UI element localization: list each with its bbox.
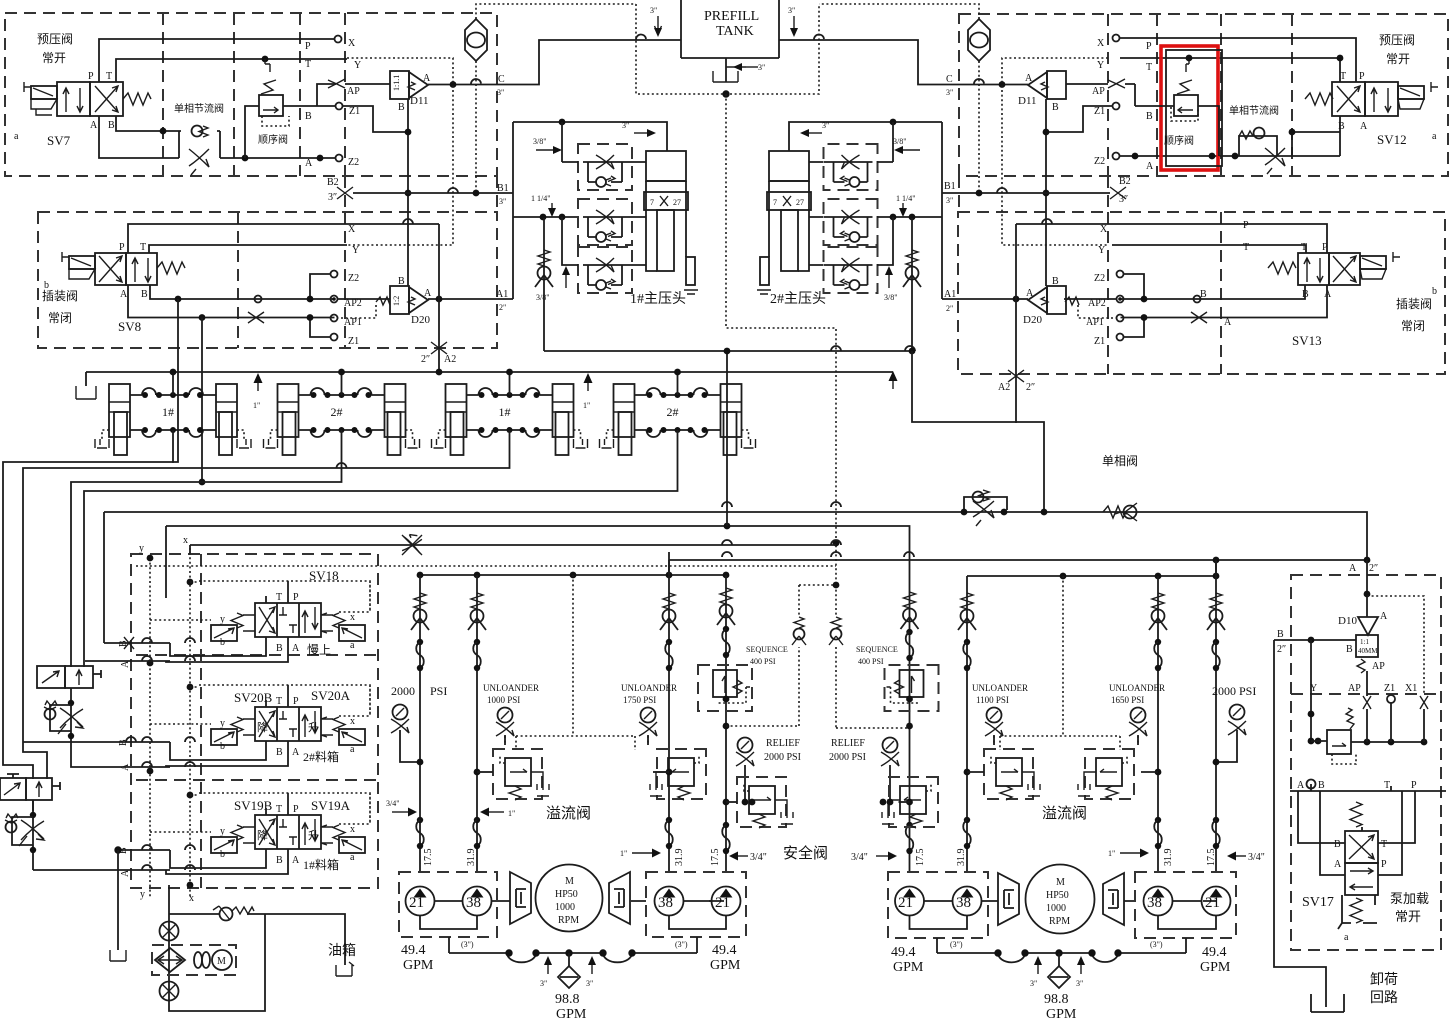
- SV8 P to X line: [128, 224, 439, 253]
- svg-text:x: x: [350, 824, 355, 835]
- svg-text:SV7: SV7: [47, 133, 71, 148]
- svg-text:P: P: [119, 242, 125, 253]
- dotted bypass around tank: [636, 4, 819, 94]
- dotted pilots sequence: [726, 585, 910, 728]
- SV8 B/A wires: [128, 285, 335, 318]
- svg-text:GPM: GPM: [893, 960, 924, 975]
- svg-text:SV13: SV13: [1292, 333, 1322, 348]
- svg-text:x: x: [350, 716, 355, 727]
- svg-text:1": 1": [1108, 849, 1115, 858]
- svg-text:B: B: [305, 111, 312, 122]
- wire X-line down to A2: [438, 224, 440, 369]
- svg-text:x: x: [350, 612, 355, 623]
- svg-text:1 1/4": 1 1/4": [896, 194, 916, 203]
- manifold left: [449, 937, 697, 953]
- svg-text:A: A: [1334, 859, 1342, 870]
- wire AP2 to D20: [338, 298, 390, 300]
- motor box: [152, 945, 236, 975]
- svg-text:PREFILL: PREFILL: [704, 9, 759, 24]
- svg-text:3/8": 3/8": [536, 293, 550, 302]
- svg-text:RPM: RPM: [558, 915, 579, 926]
- dotted bus y590: [136, 565, 836, 567]
- svg-text:y: y: [139, 543, 144, 554]
- svg-text:y: y: [220, 826, 225, 837]
- svg-text:1": 1": [620, 849, 627, 858]
- svg-text:B2: B2: [327, 177, 339, 188]
- tank 油箱: [336, 962, 354, 976]
- hand valve 2: [0, 778, 60, 800]
- svg-text:49.4: 49.4: [891, 945, 916, 960]
- svg-text:(3"): (3"): [950, 940, 963, 949]
- svg-text:21: 21: [409, 895, 424, 911]
- svg-text:a: a: [350, 744, 355, 755]
- svg-text:1000: 1000: [555, 902, 575, 913]
- line C y545: [190, 545, 836, 554]
- internal dashed dividers: [163, 13, 345, 176]
- svg-text:AP: AP: [1348, 683, 1361, 694]
- line y351 between check bottoms: [544, 346, 915, 351]
- svg-text:B: B: [1200, 289, 1207, 300]
- svg-text:3″: 3″: [1119, 194, 1128, 205]
- svg-text:AP: AP: [1372, 661, 1385, 672]
- svg-text:M: M: [217, 956, 226, 967]
- svg-text:2#主压头: 2#主压头: [770, 291, 826, 307]
- svg-text:A: A: [423, 73, 431, 84]
- wires SV12 P/T: [1120, 38, 1356, 82]
- svg-text:常开: 常开: [1395, 909, 1421, 924]
- svg-text:3": 3": [788, 6, 795, 15]
- svg-text:98.8: 98.8: [555, 992, 580, 1007]
- svg-text:GPM: GPM: [403, 958, 434, 973]
- svg-text:TANK: TANK: [716, 24, 754, 39]
- svg-text:38: 38: [1147, 895, 1162, 911]
- svg-text:A: A: [1146, 161, 1154, 172]
- main valve SV17: [1350, 802, 1362, 827]
- svg-text:a: a: [1432, 131, 1437, 142]
- svg-text:(3"): (3"): [461, 940, 474, 949]
- check valve under press1: [543, 218, 545, 351]
- manifold right: [937, 938, 1186, 953]
- svg-text:T: T: [1384, 780, 1390, 791]
- svg-text:3": 3": [822, 121, 829, 130]
- hand valve 1: [37, 666, 101, 688]
- valve SV7 4/2: [57, 82, 90, 116]
- wire P to X: [99, 39, 335, 82]
- svg-text:D20: D20: [1023, 314, 1042, 326]
- svg-text:1": 1": [253, 401, 260, 410]
- svg-text:3": 3": [586, 979, 593, 988]
- svg-text:3/4": 3/4": [386, 799, 400, 808]
- wire D20 A to A1: [428, 298, 513, 300]
- svg-text:1:1: 1:1: [1360, 638, 1369, 646]
- svg-text:A: A: [292, 643, 300, 654]
- svg-text:3/4": 3/4": [1248, 852, 1265, 863]
- wire T to Y: [116, 59, 347, 82]
- svg-text:X: X: [1100, 224, 1108, 235]
- svg-text:卸荷: 卸荷: [1370, 972, 1398, 988]
- svg-text:SEQUENCE: SEQUENCE: [746, 645, 788, 654]
- svg-text:17.5: 17.5: [915, 849, 926, 867]
- svg-text:RELIEF: RELIEF: [831, 738, 865, 749]
- svg-text:A: A: [424, 288, 432, 299]
- chain x909: [909, 589, 911, 872]
- svg-text:B: B: [1052, 102, 1059, 113]
- svg-text:3": 3": [758, 63, 765, 72]
- svg-text:a: a: [350, 852, 355, 863]
- chain x1158: [1157, 576, 1159, 872]
- svg-text:1:2: 1:2: [392, 296, 401, 306]
- wire D11 B down to D20 B: [407, 99, 409, 286]
- sequence valve 顺序阀 left: [259, 95, 283, 116]
- pump group left-2: [646, 872, 746, 937]
- svg-text:GPM: GPM: [1046, 1007, 1077, 1022]
- svg-text:T: T: [1340, 71, 1346, 82]
- svg-text:P: P: [88, 71, 94, 82]
- single check 单相阀 assembly on A: [964, 490, 1007, 526]
- svg-text:A: A: [305, 158, 313, 169]
- wire D11B-D20B right: [1045, 99, 1047, 286]
- svg-text:B: B: [398, 102, 405, 113]
- svg-text:Z2: Z2: [348, 157, 359, 168]
- dotted pilot riser left: [505, 575, 648, 750]
- B2 line right: [1110, 187, 1126, 199]
- svg-text:溢流阀: 溢流阀: [1042, 805, 1087, 822]
- box SV7 pre-pressure valve normally open: [5, 13, 497, 176]
- svg-text:1": 1": [508, 809, 515, 818]
- svg-text:插装阀: 插装阀: [42, 289, 78, 303]
- svg-text:X: X: [348, 38, 356, 49]
- svg-text:A: A: [1026, 288, 1034, 299]
- svg-text:3": 3": [540, 979, 547, 988]
- box SV12 pre-pressure valve right: [959, 14, 1448, 176]
- svg-text:y: y: [140, 889, 145, 900]
- Z2 line right: [1120, 155, 1340, 157]
- svg-text:AP: AP: [1092, 86, 1105, 97]
- svg-text:T: T: [276, 804, 282, 815]
- svg-text:y: y: [220, 614, 225, 625]
- svg-text:Y: Y: [352, 245, 359, 256]
- svg-text:回路: 回路: [1370, 990, 1398, 1006]
- svg-text:B: B: [1338, 121, 1345, 132]
- wire D11 A to C: [428, 40, 681, 85]
- port column circles and labels: [335, 36, 342, 43]
- svg-text:2″: 2″: [421, 354, 430, 365]
- wire B2 line: [337, 187, 353, 199]
- svg-text:Z1: Z1: [349, 106, 360, 117]
- top bus over cylinder row: [86, 371, 893, 373]
- svg-text:a: a: [14, 131, 19, 142]
- svg-text:T: T: [1381, 839, 1387, 850]
- svg-text:P: P: [1381, 859, 1387, 870]
- row2 1 1/4 inch: [513, 216, 646, 218]
- svg-text:顺序阀: 顺序阀: [258, 133, 288, 146]
- svg-text:T: T: [276, 696, 282, 707]
- svg-text:17.5: 17.5: [1206, 849, 1217, 867]
- svg-text:1750 PSI: 1750 PSI: [623, 695, 656, 705]
- svg-text:3/4": 3/4": [851, 852, 868, 863]
- svg-text:A: A: [1324, 289, 1332, 300]
- bus y575 chains left: [418, 574, 726, 576]
- svg-text:A: A: [1360, 121, 1368, 132]
- svg-text:单相阀: 单相阀: [1102, 454, 1138, 468]
- svg-text:49.4: 49.4: [401, 943, 426, 958]
- press cylinder 1: [646, 151, 686, 181]
- svg-text:Y: Y: [354, 60, 361, 71]
- svg-text:2000 PSI: 2000 PSI: [829, 752, 866, 763]
- D11 right: [1028, 71, 1066, 99]
- svg-text:17.5: 17.5: [423, 849, 434, 867]
- svg-text:C: C: [498, 74, 505, 85]
- svg-text:Y: Y: [1098, 245, 1105, 256]
- D20 right: [1028, 286, 1066, 314]
- svg-text:2000 PSI: 2000 PSI: [1212, 684, 1256, 698]
- svg-text:HP50: HP50: [555, 889, 578, 900]
- svg-text:38: 38: [466, 895, 481, 911]
- svg-text:1": 1": [583, 401, 590, 410]
- svg-text:RELIEF: RELIEF: [766, 738, 800, 749]
- svg-text:A: A: [1297, 780, 1305, 791]
- svg-text:b: b: [220, 849, 225, 860]
- svg-text:降: 降: [257, 828, 268, 842]
- svg-text:PSI: PSI: [430, 684, 447, 698]
- svg-text:31.9: 31.9: [1163, 849, 1174, 867]
- bus y560 right: [669, 559, 1367, 561]
- svg-text:3": 3": [499, 197, 506, 206]
- svg-text:P: P: [305, 41, 311, 52]
- svg-text:P: P: [293, 804, 299, 815]
- svg-text:31.9: 31.9: [466, 849, 477, 867]
- svg-text:升: 升: [308, 829, 319, 842]
- SV17 wiring: [1298, 784, 1415, 875]
- svg-text:b: b: [1432, 286, 1437, 297]
- wire B down-right: [116, 116, 179, 131]
- svg-text:B: B: [276, 643, 283, 654]
- svg-text:B: B: [1146, 111, 1153, 122]
- svg-text:1 1/4": 1 1/4": [531, 194, 551, 203]
- svg-text:慢上: 慢上: [307, 643, 331, 657]
- svg-text:SV8: SV8: [118, 319, 141, 334]
- cylinder row groups: [95, 372, 251, 455]
- svg-text:2″: 2″: [1369, 563, 1378, 574]
- svg-text:M: M: [565, 876, 574, 887]
- svg-text:Z2: Z2: [1094, 273, 1105, 284]
- svg-text:RPM: RPM: [1049, 916, 1070, 927]
- wires SV12 B/A: [1292, 116, 1340, 156]
- svg-text:38: 38: [956, 895, 971, 911]
- svg-text:X1: X1: [1405, 683, 1417, 694]
- svg-text:UNLOANDER: UNLOANDER: [483, 683, 539, 693]
- svg-text:AP: AP: [347, 86, 360, 97]
- svg-text:a: a: [1344, 932, 1349, 943]
- svg-text:3": 3": [622, 121, 629, 130]
- Z2/Z1 jogs: [310, 274, 330, 337]
- svg-text:D11: D11: [1018, 95, 1037, 107]
- svg-text:X: X: [348, 224, 356, 235]
- svg-text:B: B: [1318, 780, 1325, 791]
- SV8 T: [149, 245, 347, 253]
- svg-text:Z1: Z1: [1384, 683, 1395, 694]
- svg-text:B: B: [276, 855, 283, 866]
- svg-text:1100 PSI: 1100 PSI: [976, 695, 1009, 705]
- port column right: [1113, 35, 1120, 42]
- svg-text:40MM: 40MM: [1358, 647, 1378, 655]
- svg-text:T: T: [305, 59, 311, 70]
- svg-text:2": 2": [946, 304, 953, 313]
- svg-text:预压阀: 预压阀: [1379, 33, 1415, 47]
- pump group right: [888, 872, 988, 938]
- svg-text:B1: B1: [497, 183, 509, 194]
- valve SV12: [1332, 82, 1365, 116]
- Z1 wire: [343, 106, 408, 132]
- svg-text:A: A: [292, 855, 300, 866]
- svg-text:SV19A: SV19A: [311, 798, 351, 813]
- svg-text:1650 PSI: 1650 PSI: [1111, 695, 1144, 705]
- box SV13: [958, 212, 1445, 374]
- valve module row1 press1: [578, 144, 632, 190]
- spring SV7: [123, 93, 151, 105]
- svg-text:油箱: 油箱: [328, 943, 356, 959]
- svg-text:3": 3": [497, 88, 504, 97]
- flow control 单相节流阀 right: [1239, 136, 1277, 156]
- svg-text:P: P: [1359, 71, 1365, 82]
- svg-text:GPM: GPM: [556, 1007, 587, 1022]
- svg-text:常闭: 常闭: [1401, 319, 1425, 333]
- svg-text:3": 3": [1076, 979, 1083, 988]
- svg-text:常开: 常开: [1386, 52, 1410, 66]
- svg-text:B: B: [1052, 276, 1059, 287]
- svg-text:B: B: [398, 276, 405, 287]
- svg-text:顺序阀: 顺序阀: [1164, 134, 1194, 147]
- svg-text:安全阀: 安全阀: [783, 844, 828, 862]
- valve SV13: [1298, 253, 1329, 285]
- svg-text:P: P: [293, 696, 299, 707]
- strainer circles: [160, 922, 179, 941]
- svg-text:1000: 1000: [1046, 903, 1066, 914]
- pilot valve small: [1310, 640, 1312, 741]
- pump group left: [399, 872, 497, 937]
- Y dotted pilot: [347, 58, 453, 245]
- press head 2 (right, mirrored): [941, 122, 943, 299]
- svg-text:1#: 1#: [499, 405, 511, 419]
- svg-text:3/8": 3/8": [533, 137, 547, 146]
- svg-text:2": 2": [499, 303, 506, 312]
- long line A y512: [104, 512, 1367, 560]
- svg-text:Z2: Z2: [1094, 156, 1105, 167]
- svg-text:2#料箱: 2#料箱: [303, 749, 339, 764]
- svg-text:y: y: [220, 718, 225, 729]
- ladder routing: [3, 430, 173, 779]
- svg-text:(3"): (3"): [1150, 940, 1163, 949]
- svg-text:(3"): (3"): [675, 940, 688, 949]
- wire right A2 drop: [912, 351, 1044, 510]
- svg-text:Z2: Z2: [348, 273, 359, 284]
- svg-text:A2: A2: [444, 354, 456, 365]
- dotted pilot riser right: [994, 576, 1138, 750]
- svg-text:C: C: [946, 74, 953, 85]
- svg-text:b: b: [220, 637, 225, 648]
- svg-text:38: 38: [658, 895, 673, 911]
- press head 1 riser: [512, 122, 514, 299]
- svg-text:3/8": 3/8": [884, 293, 898, 302]
- svg-text:Y: Y: [1097, 60, 1104, 71]
- svg-text:A: A: [1380, 611, 1388, 622]
- svg-text:17.5: 17.5: [710, 849, 721, 867]
- svg-text:T: T: [276, 592, 282, 603]
- wire A down to D10: [1366, 560, 1368, 617]
- svg-text:3": 3": [946, 196, 953, 205]
- row3: [578, 247, 632, 293]
- svg-text:单相节流阀: 单相节流阀: [1229, 104, 1279, 117]
- chain x726 sequence/relief: [725, 575, 727, 872]
- svg-text:3": 3": [650, 6, 657, 15]
- svg-text:3/8": 3/8": [893, 137, 907, 146]
- svg-text:B: B: [1346, 644, 1353, 655]
- svg-text:7: 7: [773, 198, 777, 207]
- svg-text:x: x: [183, 535, 188, 546]
- chain x669: [668, 552, 670, 872]
- valve SV8: [95, 253, 126, 285]
- svg-text:GPM: GPM: [1200, 960, 1231, 975]
- chain x420: [419, 575, 421, 872]
- solenoid SV7: [31, 86, 57, 99]
- svg-text:预压阀: 预压阀: [37, 32, 73, 46]
- svg-text:31.9: 31.9: [956, 849, 967, 867]
- svg-text:M: M: [1056, 877, 1065, 888]
- D11 intensifier: [390, 71, 428, 99]
- svg-text:A1: A1: [944, 289, 956, 300]
- svg-text:P: P: [1411, 780, 1417, 791]
- top row to cylinder 1: [513, 122, 667, 151]
- svg-text:T: T: [1146, 62, 1152, 73]
- svg-text:GPM: GPM: [710, 958, 741, 973]
- svg-text:27: 27: [796, 198, 804, 207]
- svg-text:X: X: [1097, 38, 1105, 49]
- svg-text:P: P: [1243, 220, 1249, 231]
- svg-text:HP50: HP50: [1046, 890, 1069, 901]
- svg-text:B: B: [1334, 839, 1341, 850]
- svg-text:A: A: [1349, 563, 1357, 574]
- svg-text:3": 3": [946, 88, 953, 97]
- svg-text:3": 3": [1030, 979, 1037, 988]
- svg-text:1000 PSI: 1000 PSI: [487, 695, 520, 705]
- svg-text:插装阀: 插装阀: [1396, 297, 1432, 311]
- svg-text:UNLOANDER: UNLOANDER: [621, 683, 677, 693]
- svg-text:P: P: [293, 592, 299, 603]
- svg-text:T: T: [106, 71, 112, 82]
- svg-text:27: 27: [673, 198, 681, 207]
- svg-text:降: 降: [257, 720, 268, 734]
- svg-text:1#料箱: 1#料箱: [303, 857, 339, 872]
- svg-text:2″: 2″: [1277, 644, 1286, 655]
- svg-text:7: 7: [650, 198, 654, 207]
- svg-text:UNLOANDER: UNLOANDER: [1109, 683, 1165, 693]
- filter top left: [465, 19, 487, 61]
- svg-text:Z1: Z1: [1094, 336, 1105, 347]
- svg-text:31.9: 31.9: [674, 849, 685, 867]
- svg-text:B: B: [108, 120, 115, 131]
- svg-text:T: T: [1243, 242, 1249, 253]
- svg-text:D11: D11: [410, 95, 429, 107]
- svg-text:B: B: [1277, 629, 1284, 640]
- unload tank: [1311, 994, 1344, 1012]
- PREFILL TANK: [681, 0, 779, 58]
- svg-text:3″: 3″: [328, 192, 337, 203]
- sequence valve 顺序阀 right with red highlight: [1161, 46, 1218, 170]
- filter top right: [968, 19, 990, 61]
- svg-text:1:1.1: 1:1.1: [392, 75, 401, 91]
- risers SV8 B/A to ladder: [175, 296, 182, 303]
- wire A line to Z2: [220, 157, 335, 159]
